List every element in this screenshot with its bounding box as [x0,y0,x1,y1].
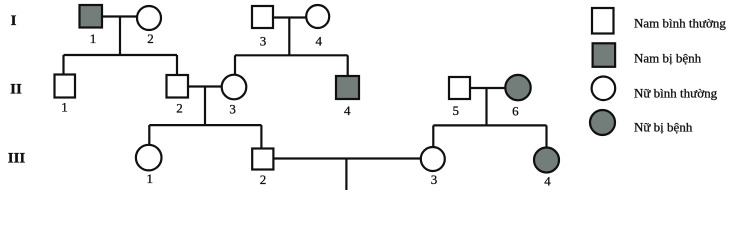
wire: descent drop from II-2/II-3 [204,87,206,126]
wire: descent drop below III-2/III-3 [345,159,347,191]
legend symbol: affected female filled circle [590,110,615,135]
wire: drop to III-3 [432,125,434,147]
svg-text:2: 2 [176,101,183,116]
svg-text:5: 5 [452,103,459,118]
wire: sibship line for II-3,II-4 [235,54,348,56]
wire: drop to II-1 [62,55,64,75]
svg-text:2: 2 [147,31,154,46]
svg-text:6: 6 [512,104,519,119]
individual II-5 normal male (square) [449,77,470,99]
svg-text:2: 2 [260,172,267,187]
individual II-2 normal male (square) [167,75,189,98]
individual I-1 affected male (filled square) [80,5,103,28]
wire: drop to III-4 [545,125,547,147]
individual III-2 normal male (square) [252,149,273,170]
svg-text:II: II [10,82,22,98]
svg-text:3: 3 [229,102,236,117]
wire: descent drop from I-3/I-4 [288,18,290,56]
wire: drop to III-1 [148,125,150,145]
svg-text:1: 1 [61,100,68,115]
individual II-6 affected female (filled circle) [505,75,530,100]
svg-text:Nam bị bệnh: Nam bị bệnh [634,51,702,66]
individual II-4 affected male (filled square) [336,76,359,99]
individual II-3 normal female (circle) [222,75,247,100]
wire: drop to II-2 [176,55,178,75]
svg-text:1: 1 [147,171,154,186]
wire: sibship line for III-3,III-4 [433,124,546,126]
wire: drop to II-4 [347,55,349,76]
wire: marriage line III-2 to III-3 [274,157,422,159]
wire: marriage line I-3 to I-4 [272,16,307,18]
individual I-4 normal female (circle) [306,5,329,28]
svg-text:Nữ bị bệnh: Nữ bị bệnh [634,119,693,134]
wire: marriage line II-5 to II-6 [470,87,506,89]
legend symbol: normal female circle [592,77,616,101]
individual II-1 normal male (square) [55,75,76,98]
wire: drop to II-3 [234,55,236,75]
individual I-3 normal male (square) [252,6,273,28]
wire: marriage line II-2 to II-3 [188,85,222,87]
individual III-3 normal female (circle) [421,147,445,171]
individual III-1 normal female (circle) [136,145,162,171]
svg-text:3: 3 [431,172,438,187]
wire: descent drop from I-1/I-2 [119,17,121,56]
svg-text:I: I [11,13,17,29]
wire: marriage line I-1 to I-2 [102,15,137,17]
svg-text:III: III [8,151,26,167]
wire: descent drop from II-5/II-6 [485,88,487,125]
svg-text:4: 4 [344,103,351,118]
legend symbol: normal male square [592,8,614,34]
individual III-4 affected female (filled circle) [534,148,559,173]
svg-text:Nữ bình thường: Nữ bình thường [634,86,718,101]
svg-text:4: 4 [316,34,323,49]
svg-text:3: 3 [260,34,267,49]
wire: drop to III-2 [260,125,262,148]
legend symbol: affected male filled square [593,43,616,67]
wire: sibship line for II-1,II-2 [64,54,178,56]
svg-text:4: 4 [544,174,551,189]
wire: sibship line for III-1,III-2 [149,124,261,126]
svg-text:Nam bình thường: Nam bình thường [634,16,726,31]
svg-text:1: 1 [90,31,97,46]
individual I-2 normal female (circle) [137,6,161,30]
